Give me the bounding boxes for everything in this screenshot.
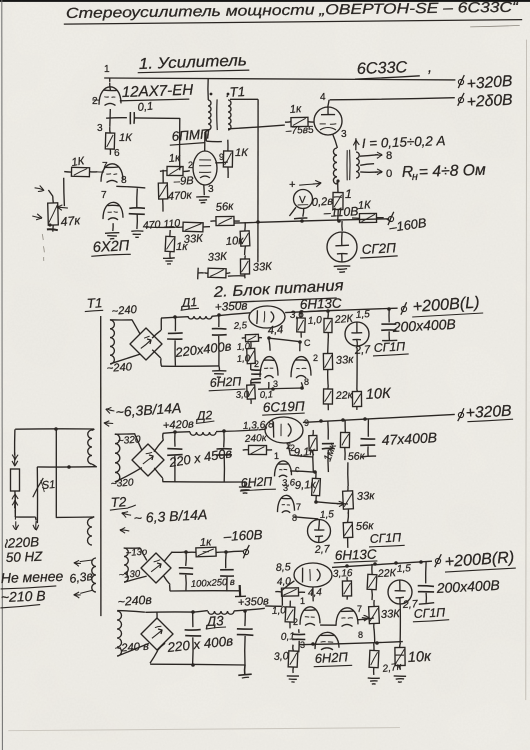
terminal -160 b xyxy=(243,545,249,558)
wire 240 bottom rail xyxy=(150,643,245,665)
junction bias2 xyxy=(300,219,304,223)
resistor 33к err xyxy=(323,340,332,383)
wire Д2 out xyxy=(216,430,258,432)
pin 3 320 xyxy=(283,483,288,493)
wire bridge out bottom xyxy=(152,350,219,367)
resistor 1к bias xyxy=(186,547,226,557)
svg-text:–75в: –75в xyxy=(285,125,309,137)
wire +280V xyxy=(330,98,455,100)
label -110В xyxy=(322,204,358,220)
label с pin xyxy=(295,464,300,474)
svg-text:4,0: 4,0 xyxy=(277,576,292,588)
label 1К bias xyxy=(358,199,373,212)
choke Д1 label xyxy=(179,295,197,310)
pin 3 label 6C33C xyxy=(341,129,347,140)
wire tube R cathode xyxy=(312,587,314,601)
capacitor err pair xyxy=(251,370,261,383)
underline 6Н13С R xyxy=(334,561,378,563)
capacitor 47х400В xyxy=(360,419,376,457)
svg-text:10к: 10к xyxy=(225,235,244,248)
label 3,0 R xyxy=(274,650,289,663)
heading 2 underline xyxy=(231,298,337,302)
label 13,5,8 xyxy=(243,419,275,432)
T1 secondary winding xyxy=(228,100,231,130)
underline 6ПМП xyxy=(170,143,205,146)
label 47х400В xyxy=(381,429,437,448)
label 8,5 xyxy=(276,561,291,574)
label 6С19П xyxy=(263,399,306,415)
junction r1 xyxy=(299,310,303,314)
label Т1 PSU xyxy=(86,295,102,311)
svg-text:+320В: +320В xyxy=(465,403,512,422)
pin 3 err xyxy=(273,379,278,389)
label ~130 b xyxy=(118,568,141,581)
pin 7 label xyxy=(102,161,108,172)
label 33К bottom xyxy=(207,251,228,264)
svg-text:с: с xyxy=(295,464,300,474)
junction d3a xyxy=(191,610,195,614)
T primary b xyxy=(88,518,93,545)
label 6Н2П R xyxy=(314,649,348,666)
scan edge left xyxy=(1,0,4,750)
resistor 3,16 R xyxy=(342,577,351,600)
junction b130 b xyxy=(224,550,228,554)
svg-text:9: 9 xyxy=(304,418,309,428)
resistor 1,0 a xyxy=(247,342,256,370)
label 4,4 R xyxy=(308,587,323,599)
svg-text:Д2: Д2 xyxy=(194,408,212,423)
pin 1 R xyxy=(300,596,305,606)
svg-text:+350в: +350в xyxy=(214,298,247,314)
label ~210В xyxy=(1,587,46,605)
svg-text:~210 В: ~210 В xyxy=(1,587,46,605)
wire c to 9,1к xyxy=(290,470,317,474)
tick mark xyxy=(428,60,432,76)
title underline xyxy=(64,20,522,27)
label 33к chain xyxy=(252,261,273,274)
resistor 10к chain xyxy=(240,222,250,255)
junction mains xyxy=(54,427,58,431)
tube 6Н13С R xyxy=(294,563,332,588)
wire bias out xyxy=(226,551,243,552)
heater winding 6,3 xyxy=(92,558,96,592)
dashed wire to pin7 xyxy=(97,171,104,173)
junction s1 xyxy=(319,419,323,423)
wire err plate L2 xyxy=(299,342,301,351)
label 1,5 L xyxy=(355,309,370,321)
svg-text:33К: 33К xyxy=(207,251,228,264)
label 0,1 err xyxy=(260,389,274,401)
T1 HV winding xyxy=(110,320,114,364)
ground 320 xyxy=(239,482,251,494)
wire feedback vertical xyxy=(257,99,259,262)
svg-text:1: 1 xyxy=(104,64,110,75)
svg-text:0,1: 0,1 xyxy=(281,631,296,643)
junction d3b xyxy=(243,609,247,613)
wire 6C33C anode up xyxy=(328,100,330,108)
wire 6Х2П cathode xyxy=(112,223,114,231)
terminal +200L xyxy=(401,302,407,315)
title text xyxy=(66,0,520,22)
resistor 1К grid xyxy=(64,167,97,176)
wire phi xyxy=(386,219,391,221)
resistor 33к 320 xyxy=(343,462,354,514)
label ~130 a xyxy=(125,547,147,559)
pin 2 err xyxy=(254,359,259,369)
pin 2 label pentode xyxy=(188,160,193,170)
OPT tap 0 arrow xyxy=(360,169,382,175)
label 56К fb xyxy=(215,200,234,214)
svg-text:+: + xyxy=(289,179,296,191)
resistor 240к xyxy=(243,445,272,454)
resistor 470к xyxy=(158,170,167,212)
svg-text:6Н2П: 6Н2П xyxy=(209,374,241,390)
underline Т2 xyxy=(110,505,136,510)
wire 240 top2 xyxy=(145,612,193,619)
label .Т1 xyxy=(225,84,245,100)
label ~240 в b xyxy=(114,641,149,655)
label 220х400в 2 xyxy=(166,633,234,655)
wire Д1 out xyxy=(212,313,251,317)
label ~6,3В/14А top xyxy=(115,399,182,420)
junction C xyxy=(298,340,302,344)
wire tube to 9,1к xyxy=(288,443,314,457)
pentode V2 xyxy=(193,151,217,185)
tube СГ2П xyxy=(327,232,357,262)
pin 4 label xyxy=(320,92,326,103)
resistor 10к R xyxy=(395,643,405,670)
label 1,0 a xyxy=(236,341,251,353)
bridge rectifier 320 xyxy=(132,444,164,476)
wire prim b top xyxy=(92,517,95,519)
wire d3 out xyxy=(234,608,265,611)
label 50 HZ xyxy=(6,549,44,565)
svg-text:+320В: +320В xyxy=(466,73,513,93)
voltmeter legs xyxy=(289,207,307,219)
tube СГ1П 320 xyxy=(308,520,331,543)
svg-text:10К: 10К xyxy=(365,386,392,403)
wire mains mid xyxy=(37,466,96,468)
capacitor 470,0 xyxy=(129,188,145,229)
capacitor 220х400 c xyxy=(185,612,202,665)
label 2,5 xyxy=(232,320,248,332)
arrow heater 2 xyxy=(120,512,131,534)
label 22К R xyxy=(377,567,397,580)
heater arrow a xyxy=(74,560,94,566)
underline 6Н2П R xyxy=(314,665,353,666)
resistor 1К screen xyxy=(223,140,232,178)
pin 2 R xyxy=(293,617,298,627)
wire T1 sec to grid xyxy=(228,125,285,129)
wire T1 sec bottom xyxy=(206,131,222,142)
svg-text:7: 7 xyxy=(296,502,301,512)
label 1,5 320 xyxy=(320,509,335,521)
svg-text:1к: 1к xyxy=(289,103,302,116)
svg-text:1К: 1К xyxy=(119,132,133,144)
triode err R1 xyxy=(300,607,320,626)
wire pentode anode xyxy=(204,132,206,151)
wire 320 bottom xyxy=(115,468,142,482)
svg-text:240к: 240к xyxy=(244,433,268,445)
OPT tap mid arrow xyxy=(360,164,374,166)
pin 3 label xyxy=(97,123,103,134)
label 10к R xyxy=(407,649,432,666)
svg-text:~320: ~320 xyxy=(110,477,134,490)
input arrow upper xyxy=(35,186,45,192)
label 200х400В L xyxy=(391,316,456,335)
label 2,7 L xyxy=(353,344,371,357)
label 0 xyxy=(386,168,392,180)
wire СГ1П R to 10к xyxy=(399,604,401,643)
svg-text:1,5: 1,5 xyxy=(397,563,412,575)
svg-text:10к: 10к xyxy=(407,649,432,666)
heater arrow b xyxy=(74,590,93,598)
ground 240 xyxy=(238,665,251,678)
junction d2a xyxy=(173,430,177,434)
pin 9 label xyxy=(219,152,224,162)
capacitor 220х400 b xyxy=(212,315,227,366)
resistor 1 ohm xyxy=(333,179,343,221)
resistor 56К fb xyxy=(210,216,239,225)
triode err R2 xyxy=(336,608,358,627)
junction d2b xyxy=(222,429,226,433)
underline 12АХ7 xyxy=(120,99,190,101)
terminal +200R xyxy=(435,554,442,567)
svg-text:Не менее: Не менее xyxy=(1,568,64,586)
svg-text:1К: 1К xyxy=(235,147,249,159)
wire V1a cathode xyxy=(109,109,112,127)
svg-text:33к: 33к xyxy=(335,354,354,367)
label 3,16 xyxy=(333,568,354,580)
svg-text:2,7: 2,7 xyxy=(353,344,371,357)
svg-text:1: 1 xyxy=(274,451,279,461)
wire 320 bottom rail xyxy=(154,468,245,482)
svg-text:I = 0,15÷0,2 А: I = 0,15÷0,2 А xyxy=(362,133,446,151)
svg-text:СГ1П: СГ1П xyxy=(369,530,401,546)
label 6Н2П 320 xyxy=(240,474,272,490)
svg-text:0,1: 0,1 xyxy=(137,100,154,114)
T2 130 winding xyxy=(124,548,128,582)
terminal -160В xyxy=(388,212,394,225)
svg-text:.Т1: .Т1 xyxy=(225,84,245,100)
resistor 33к chain xyxy=(240,255,249,278)
svg-text:н: н xyxy=(412,171,418,183)
OPT primary winding xyxy=(333,148,337,184)
label ~6,3В/14А bot xyxy=(133,506,207,526)
ground pentode xyxy=(196,197,209,203)
capacitor 100х250 a xyxy=(179,552,193,591)
label 1,0 reg xyxy=(307,315,322,327)
wire 12AX7 anode to rail xyxy=(109,78,111,82)
wire bottom bus R xyxy=(299,642,403,645)
svg-text:6Н2П: 6Н2П xyxy=(240,474,272,490)
pin 7 R xyxy=(357,604,362,614)
resistor 56к reg xyxy=(340,420,349,460)
label 33к err xyxy=(335,354,354,367)
svg-text:–9В: –9В xyxy=(173,175,195,188)
label 240к xyxy=(244,433,268,445)
label Rн = 4÷8 Ом xyxy=(402,162,487,183)
T1 320 winding xyxy=(115,434,120,482)
svg-text:6С33С: 6С33С xyxy=(357,58,408,78)
mains chevrons xyxy=(12,452,18,466)
label 47К xyxy=(60,213,82,229)
junction r3 xyxy=(387,307,391,311)
wire T1 sec top xyxy=(210,93,258,100)
wire 240 top xyxy=(117,611,145,613)
ground cap 470 xyxy=(131,231,143,237)
wire mains v1 xyxy=(14,429,16,455)
resistor 56к 320 xyxy=(343,512,353,548)
underline Д1 xyxy=(181,308,199,310)
pencil line bottom xyxy=(8,728,400,731)
underline +200L xyxy=(412,313,483,317)
label 2,7к xyxy=(381,661,403,675)
junction feedback xyxy=(256,220,260,224)
resistor 1к 6С33С grid xyxy=(285,117,314,126)
OPT core xyxy=(347,150,350,181)
label 6ПМП xyxy=(171,126,210,144)
label Т2 xyxy=(110,494,127,510)
pin 2b err xyxy=(313,353,318,363)
underline +200R xyxy=(445,568,516,572)
capacitor 220х450 a xyxy=(167,432,182,482)
wire bias rail xyxy=(234,219,388,223)
svg-text:8: 8 xyxy=(121,175,127,186)
pin 2 label xyxy=(92,96,98,107)
underline Т1 xyxy=(85,310,103,311)
junction mid xyxy=(67,465,71,469)
underline СГ2П xyxy=(360,256,398,258)
svg-text:200х400В: 200х400В xyxy=(435,577,500,596)
junction s3 xyxy=(363,417,367,421)
label 1к grid 6C33C xyxy=(289,103,302,116)
svg-text:8: 8 xyxy=(386,150,392,162)
pin 9 reg xyxy=(304,418,309,428)
junction c1 top xyxy=(173,315,177,319)
choke Д3 xyxy=(208,611,234,614)
pin С label xyxy=(304,338,311,348)
svg-text:8,5: 8,5 xyxy=(276,561,291,574)
wire 6C33C to OPT xyxy=(333,134,338,148)
svg-text:+2δ0В: +2δ0В xyxy=(466,92,513,111)
ground PSU1 xyxy=(212,366,226,377)
label 56к 320 xyxy=(356,520,375,533)
label Д3 xyxy=(204,613,224,629)
svg-text:33К: 33К xyxy=(252,261,273,274)
label 1мк xyxy=(322,441,340,463)
pin 5 label xyxy=(308,125,314,136)
label 0,1 cap xyxy=(137,100,154,114)
svg-text:6Н13С: 6Н13С xyxy=(335,547,378,563)
underline 210В xyxy=(0,605,40,608)
svg-text:2: 2 xyxy=(313,353,318,363)
ground 2,7к xyxy=(368,678,380,684)
potentiometer 47К xyxy=(48,196,59,231)
label 1 xyxy=(345,187,352,201)
underline СГ1П 320 xyxy=(369,545,405,547)
wire pentode cathode xyxy=(203,185,206,195)
OPT secondary winding xyxy=(356,152,359,178)
wire err cathode xyxy=(258,382,303,389)
ground 6Х2П xyxy=(105,233,119,239)
label 1к fb xyxy=(176,241,188,253)
svg-text:6Х2П: 6Х2П xyxy=(92,238,130,256)
pin 1 label xyxy=(104,64,110,75)
wire pot to grid resistor xyxy=(48,178,64,206)
wire 350 to tube R xyxy=(265,581,294,607)
label 4,0 xyxy=(277,576,292,588)
underline 6Н2П L xyxy=(209,389,246,391)
resistor 3,0 L xyxy=(247,380,256,404)
svg-text:~130: ~130 xyxy=(118,568,141,581)
svg-text:1,0: 1,0 xyxy=(272,605,287,617)
svg-text:3,0: 3,0 xyxy=(235,389,250,401)
label 2,7 R xyxy=(402,598,419,611)
svg-text:7: 7 xyxy=(357,604,362,614)
label -160В xyxy=(387,215,427,235)
wire T1 primary top xyxy=(207,78,209,100)
triode V1b xyxy=(101,164,123,183)
junction c2 top xyxy=(217,313,221,317)
svg-text:100х250 в: 100х250 в xyxy=(191,577,236,590)
svg-text:6Н13С: 6Н13С xyxy=(300,296,343,312)
label 1,5 R xyxy=(397,563,412,575)
wire chain bottom xyxy=(228,275,245,277)
label 1к bias2 xyxy=(200,536,213,549)
svg-text:~240 в: ~240 в xyxy=(114,641,149,655)
heading 2. Блок питания xyxy=(212,277,344,301)
resistor 9,1к b xyxy=(312,472,321,502)
svg-text:Т2: Т2 xyxy=(110,494,127,510)
svg-text:1к: 1к xyxy=(200,536,213,549)
fuse xyxy=(11,469,20,517)
svg-text:5: 5 xyxy=(308,125,314,136)
label 220х450В xyxy=(167,445,233,470)
label 6Н13С L xyxy=(300,296,343,312)
terminal +320 reg xyxy=(458,408,464,421)
label ~320 bottom xyxy=(110,477,134,490)
svg-text:~240: ~240 xyxy=(111,304,138,318)
pin 3 R xyxy=(300,640,305,650)
junction rail 347 xyxy=(345,564,349,568)
wire 320 top xyxy=(115,434,142,450)
underline 6Н2П 320 xyxy=(240,489,276,491)
wire reg rail R xyxy=(332,561,432,567)
svg-text:47х400В: 47х400В xyxy=(381,429,437,448)
fuse arrows xyxy=(12,494,18,509)
label ~240В t2 xyxy=(117,593,153,609)
voltmeter V xyxy=(294,190,313,209)
label 6Х2П xyxy=(92,238,130,256)
label -75В xyxy=(285,125,309,137)
svg-text:0: 0 xyxy=(386,168,392,180)
svg-text:С: С xyxy=(304,338,311,348)
label ~240 top xyxy=(111,304,138,318)
capacitor 200х400 L xyxy=(381,309,397,340)
junction rr2 xyxy=(394,561,398,565)
svg-text:200х400В: 200х400В xyxy=(391,316,456,335)
scan edge right xyxy=(525,40,528,701)
wire d3 wire xyxy=(193,611,208,613)
label 6,3в xyxy=(68,569,94,586)
label 22К reg xyxy=(333,313,354,326)
bridge rectifier 130 xyxy=(141,553,171,583)
wire to 6С19П xyxy=(258,428,265,431)
label 10к chain xyxy=(225,235,244,248)
arrow voltmeter xyxy=(299,180,321,187)
resistor 2,5 horiz xyxy=(242,334,262,341)
